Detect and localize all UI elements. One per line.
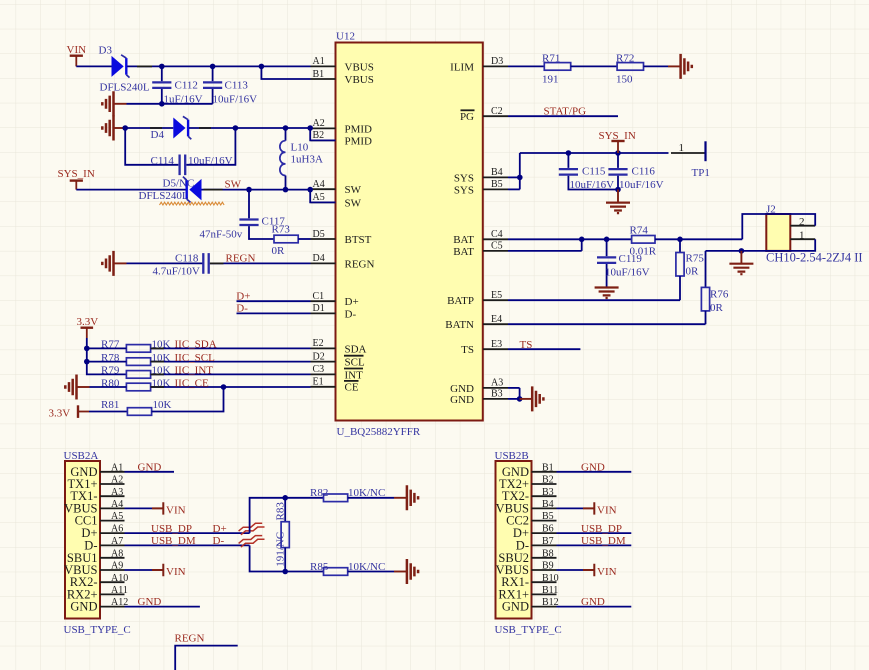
USB2A pin A8 (SBU1) — [67, 548, 125, 564]
svg-text:C113: C113 — [225, 80, 249, 92]
svg-text:USB_DP: USB_DP — [581, 523, 622, 535]
svg-text:R74: R74 — [630, 224, 649, 236]
svg-text:R83: R83 — [275, 502, 287, 521]
svg-text:VIN: VIN — [67, 44, 87, 56]
wire SYS row to TP1 — [520, 150, 669, 156]
wire R72 to ground — [644, 65, 669, 67]
wire D+ to R82 row — [250, 495, 324, 533]
wire R74 to J2 riser — [655, 237, 742, 243]
wire 3.3V bus down to R79 — [84, 338, 126, 374]
wire VIN to diode D3 — [76, 65, 111, 67]
svg-text:VIN: VIN — [166, 566, 186, 578]
U12 pin A4 (SW) left side — [311, 179, 362, 196]
net label USB_DM at B7 — [557, 535, 632, 547]
svg-text:47nF-50v: 47nF-50v — [200, 229, 243, 241]
svg-text:REGN: REGN — [175, 632, 205, 644]
svg-text:SW: SW — [345, 197, 362, 209]
svg-text:C3: C3 — [313, 364, 325, 375]
wire R81 to IIC_CE net — [152, 387, 224, 412]
USB2B pin B10 (RX1-) — [501, 573, 558, 589]
resistor R73 0R — [272, 223, 311, 257]
svg-text:SYS_IN: SYS_IN — [58, 168, 95, 180]
svg-text:191/NC: 191/NC — [275, 532, 287, 567]
resistor R76 0R (vertical) — [701, 251, 728, 324]
wire STAT/PG from U12 pin C2 — [508, 115, 618, 117]
svg-text:IIC_INT: IIC_INT — [175, 365, 214, 377]
svg-text:SDA: SDA — [345, 343, 367, 355]
USB2B pin B12 (GND) — [502, 597, 559, 613]
wire USB_DP from A6 — [125, 532, 250, 534]
net label IIC_INT and wire to U12 — [151, 365, 311, 377]
svg-text:C1: C1 — [313, 291, 325, 302]
svg-text:SYS: SYS — [454, 184, 474, 196]
svg-text:SCL: SCL — [345, 357, 365, 369]
svg-text:L10: L10 — [291, 141, 309, 153]
svg-text:B5: B5 — [542, 511, 554, 522]
wire ILIM: U12 pin D3 to R71 — [508, 65, 544, 67]
capacitor C114 10uF/16V (parallel with D4) — [125, 128, 235, 175]
svg-text:D+: D+ — [213, 523, 227, 535]
ground (signal) at U12 GND pins — [520, 386, 544, 411]
wire R85 to ground — [348, 571, 394, 573]
svg-text:B1: B1 — [542, 462, 554, 473]
svg-text:10uF/16V: 10uF/16V — [570, 179, 615, 191]
wire SW net: D5 to U12 pin A4 — [202, 187, 314, 193]
svg-text:A3: A3 — [491, 378, 503, 389]
net label USB_DP / D+ at A6 — [151, 523, 227, 535]
USB2B pin B4 (VBUS) — [496, 499, 557, 515]
svg-text:A7: A7 — [111, 536, 123, 547]
U12 pin E4 (BATN) right side — [445, 314, 508, 331]
svg-text:E3: E3 — [491, 339, 502, 350]
capacitor C115 10uF/16V — [559, 153, 618, 191]
U12 pin A1 (VBUS) left side — [311, 56, 374, 73]
resistor R81 10K — [89, 399, 172, 415]
svg-text:BAT: BAT — [453, 246, 474, 258]
U12 pin B4 (SYS) right side — [454, 167, 508, 184]
net label USB_DM / D- at A7 — [151, 535, 224, 547]
svg-text:R71: R71 — [542, 52, 560, 64]
svg-text:3.3V: 3.3V — [49, 408, 71, 420]
connector USB2A (USB_TYPE_C) body — [64, 450, 131, 636]
J2 pin 2 — [790, 216, 815, 228]
svg-text:10uF/16V: 10uF/16V — [213, 94, 258, 106]
svg-text:150: 150 — [616, 73, 633, 85]
U12 pin E3 (TS) right side — [461, 339, 508, 356]
U12 pin A2 (PMID) left side — [311, 118, 373, 135]
U12 pin D1 (D-) left side — [311, 303, 357, 320]
differential pair marker on D- — [239, 536, 265, 548]
svg-text:D-: D- — [345, 308, 357, 320]
wire R77 left lead — [87, 347, 127, 349]
svg-text:R79: R79 — [101, 365, 120, 377]
svg-text:BAT: BAT — [453, 234, 474, 246]
svg-text:IIC_SCL: IIC_SCL — [175, 352, 216, 364]
wire PMID to pin B2 riser — [310, 128, 335, 140]
wire SYS: pins B4/B5 tie riser — [508, 153, 523, 189]
svg-text:B11: B11 — [542, 585, 558, 596]
svg-text:IIC_SDA: IIC_SDA — [175, 339, 217, 351]
svg-text:VBUS: VBUS — [345, 61, 374, 73]
net label GND at B1 — [557, 461, 632, 473]
net label IIC_SDA and wire to U12 — [151, 339, 311, 351]
svg-text:STAT/PG: STAT/PG — [544, 105, 587, 117]
USB2A pin A7 (D-) — [84, 536, 124, 552]
net label GND at B12 — [557, 596, 632, 608]
svg-text:TS: TS — [461, 344, 474, 356]
connector USB2B (USB_TYPE_C) body — [495, 450, 562, 636]
svg-text:E4: E4 — [491, 314, 502, 325]
svg-text:1: 1 — [799, 229, 805, 241]
svg-text:R85: R85 — [310, 561, 329, 573]
test point TP1 — [671, 141, 710, 179]
svg-text:D-: D- — [213, 535, 225, 547]
svg-text:B6: B6 — [542, 524, 554, 535]
net label GND at A1 — [125, 461, 175, 473]
svg-text:A9: A9 — [111, 561, 123, 572]
USB2A pin A12 (GND) — [70, 597, 128, 613]
wire PMID net: ground to diode D4 — [122, 125, 173, 131]
svg-text:U12: U12 — [336, 31, 355, 43]
U12 pin D2 (SCL) left side — [311, 351, 365, 368]
svg-text:A2: A2 — [313, 118, 325, 129]
svg-text:B9: B9 — [542, 561, 554, 572]
svg-text:GND: GND — [450, 394, 474, 406]
USB2B pin B6 (D+) — [513, 524, 557, 540]
power port VIN at B4 — [557, 502, 617, 516]
svg-text:B7: B7 — [542, 536, 554, 547]
ground (signal) at C118 — [102, 251, 126, 276]
wire R71 to R72 — [571, 65, 617, 67]
USB2A pin A4 (VBUS) — [64, 499, 124, 515]
svg-text:B1: B1 — [313, 69, 325, 80]
svg-text:A1: A1 — [313, 56, 325, 67]
resistor R85 10K/NC — [310, 561, 385, 575]
capacitor C113 10uF/16V — [203, 66, 257, 105]
USB2B pin B5 (CC2) — [506, 511, 556, 527]
svg-text:R72: R72 — [616, 52, 634, 64]
svg-text:ILIM: ILIM — [450, 61, 474, 73]
net label D- and wire to pin D1 — [236, 302, 310, 314]
svg-text:R81: R81 — [101, 399, 119, 411]
svg-text:GND: GND — [502, 600, 529, 614]
svg-text:TS: TS — [520, 339, 533, 351]
resistor R83 191/NC (vertical) — [275, 498, 290, 572]
svg-text:REGN: REGN — [226, 253, 256, 265]
svg-text:10uF/16V: 10uF/16V — [619, 179, 664, 191]
U12 pin C5 (BAT) right side — [453, 241, 508, 258]
svg-text:A4: A4 — [313, 179, 325, 190]
svg-text:TP1: TP1 — [692, 167, 710, 179]
svg-text:D3: D3 — [491, 56, 503, 67]
svg-text:CH10-2.54-2ZJ4 II: CH10-2.54-2ZJ4 II — [766, 250, 863, 264]
svg-text:PMID: PMID — [345, 123, 373, 135]
svg-text:REGN: REGN — [345, 258, 375, 270]
capacitor C119 10uF/16V — [597, 239, 650, 287]
power port VIN at B9 — [557, 564, 617, 578]
wire GND pins A3/B3 tie — [508, 388, 522, 402]
net label GND at A12 — [125, 596, 200, 608]
USB2B pin B11 (RX1+) — [498, 585, 558, 601]
svg-text:IIC_CE: IIC_CE — [175, 377, 210, 389]
wire BAT: pin C5 riser — [508, 239, 582, 251]
svg-text:C112: C112 — [175, 80, 198, 92]
U12 pin B5 (SYS) right side — [454, 179, 508, 196]
net label IIC_SCL and wire to U12 — [151, 352, 311, 364]
svg-text:DFLS240L: DFLS240L — [100, 82, 150, 94]
power port 3.3V (R81) — [49, 405, 90, 419]
wire PMID net: D4 cathode to U12 pin A2 — [189, 125, 313, 131]
svg-text:0R: 0R — [686, 266, 700, 278]
wire TS from U12 pin E3 — [508, 348, 580, 350]
capacitor C118 4.7uF/10V — [153, 252, 311, 277]
diode D4 (schottky) — [151, 116, 192, 140]
wire VBUS net: D3 cathode to U12 pin A1 — [127, 64, 310, 70]
power port 3.3V (top) — [77, 316, 99, 338]
U12 pin C1 (D+) left side — [311, 291, 359, 308]
svg-text:B3: B3 — [491, 389, 503, 400]
power port VIN at A4 — [125, 502, 186, 516]
wire REGN net left of C118 — [127, 262, 203, 264]
net label USB_DP at B6 — [557, 523, 632, 535]
svg-text:R73: R73 — [272, 223, 291, 235]
svg-text:E1: E1 — [313, 377, 324, 388]
USB2B pin B1 (GND) — [502, 462, 557, 478]
U12 pin A5 (SW) left side — [311, 192, 362, 209]
svg-text:R76: R76 — [710, 289, 729, 301]
svg-text:A11: A11 — [111, 585, 128, 596]
net label D+ and wire to pin C1 — [236, 291, 310, 303]
svg-text:10uF/16V: 10uF/16V — [605, 266, 650, 278]
U12 pin B3 (GND) right side — [450, 389, 508, 406]
svg-text:D3: D3 — [99, 45, 113, 57]
svg-text:1uH3A: 1uH3A — [291, 153, 323, 165]
svg-text:C116: C116 — [632, 166, 656, 178]
svg-text:A10: A10 — [111, 573, 128, 584]
resistor R79 10K — [101, 365, 171, 379]
wire BATP: U12 pin E5 to R75 — [508, 299, 680, 301]
USB2A pin A11 (RX2+) — [67, 585, 128, 601]
capacitor C116 10uF/16V — [608, 153, 663, 192]
svg-text:3.3V: 3.3V — [77, 316, 99, 328]
svg-text:C118: C118 — [175, 252, 199, 264]
resistor R82 10K/NC — [310, 487, 385, 501]
ground (signal) at R80 — [65, 375, 89, 400]
svg-text:GND: GND — [70, 600, 97, 614]
USB2B pin B2 (TX2+) — [499, 475, 556, 491]
svg-text:VIN: VIN — [166, 504, 186, 516]
svg-text:D4: D4 — [151, 129, 165, 141]
net label IIC_CE and wire to U12 — [151, 377, 311, 389]
svg-text:DFLS240L: DFLS240L — [139, 190, 189, 202]
ground (signal) after R82 — [394, 485, 418, 510]
ground (signal) after R85 — [394, 559, 418, 584]
svg-text:B10: B10 — [542, 573, 559, 584]
svg-text:B8: B8 — [542, 548, 554, 559]
svg-text:1: 1 — [679, 142, 685, 154]
U12 pin E5 (BATP) right side — [447, 290, 508, 307]
USB2B pin B7 (D-) — [516, 536, 557, 552]
svg-text:SYS: SYS — [454, 172, 474, 184]
svg-text:C119: C119 — [619, 253, 643, 265]
svg-text:E2: E2 — [313, 338, 324, 349]
capacitor C117 47nF-50v — [200, 190, 286, 241]
svg-text:A5: A5 — [111, 511, 123, 522]
wire SYS_IN to diode D5 — [76, 189, 186, 191]
resistor R74 0.01R — [630, 224, 657, 257]
svg-text:VIN: VIN — [597, 566, 617, 578]
differential pair marker on D+ — [239, 523, 265, 535]
wire J2 pin1 to ground and R76 — [706, 239, 816, 254]
svg-text:A4: A4 — [111, 499, 123, 510]
ground (signal) for C112/C113 — [102, 91, 126, 116]
svg-text:SW: SW — [225, 178, 242, 190]
power port SYS_IN (right) — [599, 130, 636, 153]
ground (earth) under C119 — [595, 288, 619, 299]
svg-text:A2: A2 — [111, 475, 123, 486]
J2 pin 1 — [790, 229, 815, 241]
svg-text:BATN: BATN — [445, 319, 474, 331]
svg-text:B2: B2 — [542, 475, 554, 486]
compile-mask squiggle under DFLS240L — [160, 202, 225, 205]
diode D3 (DFLS240L) — [99, 45, 150, 94]
svg-text:10uF/16V: 10uF/16V — [188, 155, 233, 167]
svg-text:B3: B3 — [542, 487, 554, 498]
U12 pin D5 (BTST) left side — [311, 229, 372, 246]
connector J2 CH10-2.54-2ZJ4 — [766, 203, 863, 264]
wire USB_DM from A7 — [125, 544, 250, 546]
inductor L10 1uH3A — [280, 128, 323, 190]
U12 pin D4 (REGN) left side — [311, 253, 375, 270]
U12 pin B1 (VBUS) left side — [311, 69, 374, 86]
svg-text:C114: C114 — [151, 155, 175, 167]
svg-text:D4: D4 — [313, 253, 325, 264]
wire D- to R85 row — [250, 545, 324, 574]
svg-text:VBUS: VBUS — [345, 74, 374, 86]
svg-text:VIN: VIN — [597, 504, 617, 516]
svg-text:D1: D1 — [313, 303, 325, 314]
power port SYS_IN (left) — [58, 168, 95, 190]
USB2B pin B9 (VBUS) — [496, 561, 557, 577]
svg-text:B4: B4 — [542, 499, 554, 510]
wire BAT: U12 pin C4 to R74 — [508, 237, 632, 243]
resistor R78 10K — [101, 352, 171, 366]
svg-text:GND: GND — [581, 596, 605, 608]
svg-text:PMID: PMID — [345, 135, 373, 147]
U12 pin A3 (GND) right side — [450, 378, 508, 395]
svg-text:GND: GND — [138, 461, 162, 473]
USB2A pin A1 (GND) — [70, 462, 124, 478]
capacitor C112 1uF/16V — [152, 66, 202, 105]
wire ground row under C112/C113 — [127, 101, 213, 107]
USB2A pin A10 (RX2-) — [70, 573, 129, 589]
resistor R77 10K — [101, 339, 171, 353]
ground (signal) at D4 anode — [102, 116, 126, 141]
ground (earth) under C115/C116 — [606, 190, 630, 214]
svg-text:C2: C2 — [491, 106, 503, 117]
svg-text:D5/NC: D5/NC — [163, 178, 195, 190]
svg-text:D5: D5 — [313, 229, 325, 240]
svg-text:SW: SW — [345, 184, 362, 196]
USB2B pin B8 (SBU2) — [498, 548, 556, 564]
svg-text:U_BQ25882YFFR: U_BQ25882YFFR — [337, 426, 421, 438]
svg-text:E5: E5 — [491, 290, 502, 301]
svg-text:INT: INT — [345, 369, 364, 381]
wire J2 pin2 to BAT net — [742, 214, 815, 239]
U12 pin E1 (CE) left side — [311, 377, 359, 394]
svg-text:A6: A6 — [111, 524, 123, 535]
U12 pin E2 (SDA) left side — [311, 338, 367, 355]
wire BATN: U12 pin E4 to R76 — [508, 323, 706, 325]
svg-text:A8: A8 — [111, 548, 123, 559]
svg-text:C4: C4 — [491, 229, 503, 240]
wire VBUS to pin B1 riser — [261, 66, 310, 79]
svg-text:B12: B12 — [542, 597, 559, 608]
svg-text:CE: CE — [345, 382, 359, 394]
diode D5/NC (DFLS240L) pointing left — [139, 177, 202, 203]
svg-text:D2: D2 — [313, 351, 325, 362]
svg-text:C5: C5 — [491, 241, 503, 252]
USB2A pin A6 (D+) — [81, 524, 124, 540]
svg-text:R82: R82 — [310, 487, 328, 499]
svg-text:USB_DM: USB_DM — [151, 535, 196, 547]
wire R78 left lead — [87, 361, 127, 363]
svg-text:0R: 0R — [272, 245, 286, 257]
U12 pin D3 (ILIM) right side — [450, 56, 508, 73]
wire R82 to ground — [348, 497, 394, 499]
U12 pin C2 (PG) right side — [460, 106, 508, 123]
svg-text:A1: A1 — [111, 462, 123, 473]
USB2A pin A9 (VBUS) — [64, 561, 124, 577]
USB2A pin A2 (TX1+) — [68, 475, 125, 491]
svg-text:USB_DP: USB_DP — [151, 523, 192, 535]
svg-text:C115: C115 — [582, 166, 606, 178]
svg-text:0R: 0R — [710, 302, 724, 314]
USB2A pin A3 (TX1-) — [70, 487, 124, 503]
resistor R75 0R (vertical) — [676, 239, 704, 300]
power port VIN — [67, 44, 87, 66]
ground (signal) after R72 — [668, 54, 692, 79]
USB2B pin B3 (TX2-) — [502, 487, 557, 503]
svg-text:BATP: BATP — [447, 295, 474, 307]
resistor R71 191 — [542, 52, 571, 85]
svg-text:A3: A3 — [111, 487, 123, 498]
resistor R72 150 — [616, 52, 644, 85]
svg-text:10K: 10K — [153, 399, 172, 411]
power port VIN at A9 — [125, 564, 186, 578]
USB2A pin A5 (CC1) — [75, 511, 125, 527]
svg-text:B4: B4 — [491, 167, 503, 178]
wire REGN stub at bottom edge — [175, 646, 238, 670]
svg-text:2: 2 — [799, 216, 805, 228]
svg-text:GND: GND — [138, 596, 162, 608]
svg-text:GND: GND — [581, 461, 605, 473]
junction IIC_CE / R81 — [221, 384, 227, 390]
U12 pin C4 (BAT) right side — [453, 229, 508, 246]
ground (earth) under J2 — [729, 251, 753, 274]
svg-text:BTST: BTST — [345, 234, 372, 246]
svg-text:B5: B5 — [491, 179, 503, 190]
svg-text:USB_TYPE_C: USB_TYPE_C — [495, 624, 562, 636]
svg-text:D+: D+ — [345, 296, 359, 308]
wire SW to pin A5 riser — [310, 190, 335, 203]
svg-text:4.7uF/10V: 4.7uF/10V — [153, 265, 200, 277]
IC U12 body (charger BQ25882) — [336, 43, 483, 421]
wire R80 left lead — [90, 386, 127, 388]
resistor R80 10K — [101, 377, 171, 391]
U12 pin C3 (INT) left side — [311, 364, 364, 381]
svg-text:USB_TYPE_C: USB_TYPE_C — [64, 624, 131, 636]
